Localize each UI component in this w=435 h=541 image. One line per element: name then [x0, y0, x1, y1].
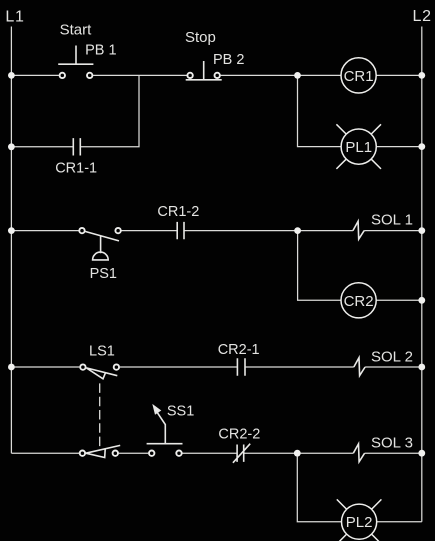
- svg-text:CR1-1: CR1-1: [55, 160, 97, 176]
- svg-text:PL1: PL1: [345, 139, 372, 156]
- svg-text:L1: L1: [5, 8, 24, 25]
- svg-text:SOL 2: SOL 2: [371, 348, 413, 365]
- svg-text:SOL 1: SOL 1: [371, 211, 413, 228]
- svg-text:PS1: PS1: [90, 266, 117, 282]
- svg-text:CR2: CR2: [344, 293, 374, 310]
- svg-text:L2: L2: [413, 8, 432, 25]
- svg-text:SOL 3: SOL 3: [371, 434, 413, 451]
- svg-text:CR1: CR1: [344, 68, 374, 85]
- svg-text:PB 2: PB 2: [213, 52, 244, 68]
- svg-text:Start: Start: [60, 21, 93, 38]
- svg-text:LS1: LS1: [89, 344, 115, 360]
- svg-text:CR1-2: CR1-2: [157, 204, 199, 220]
- svg-text:PL2: PL2: [346, 514, 373, 531]
- svg-text:SS1: SS1: [167, 404, 194, 420]
- svg-text:CR2-1: CR2-1: [218, 342, 260, 358]
- svg-text:Stop: Stop: [185, 29, 216, 46]
- svg-text:PB 1: PB 1: [85, 43, 116, 59]
- svg-text:CR2-2: CR2-2: [218, 426, 260, 442]
